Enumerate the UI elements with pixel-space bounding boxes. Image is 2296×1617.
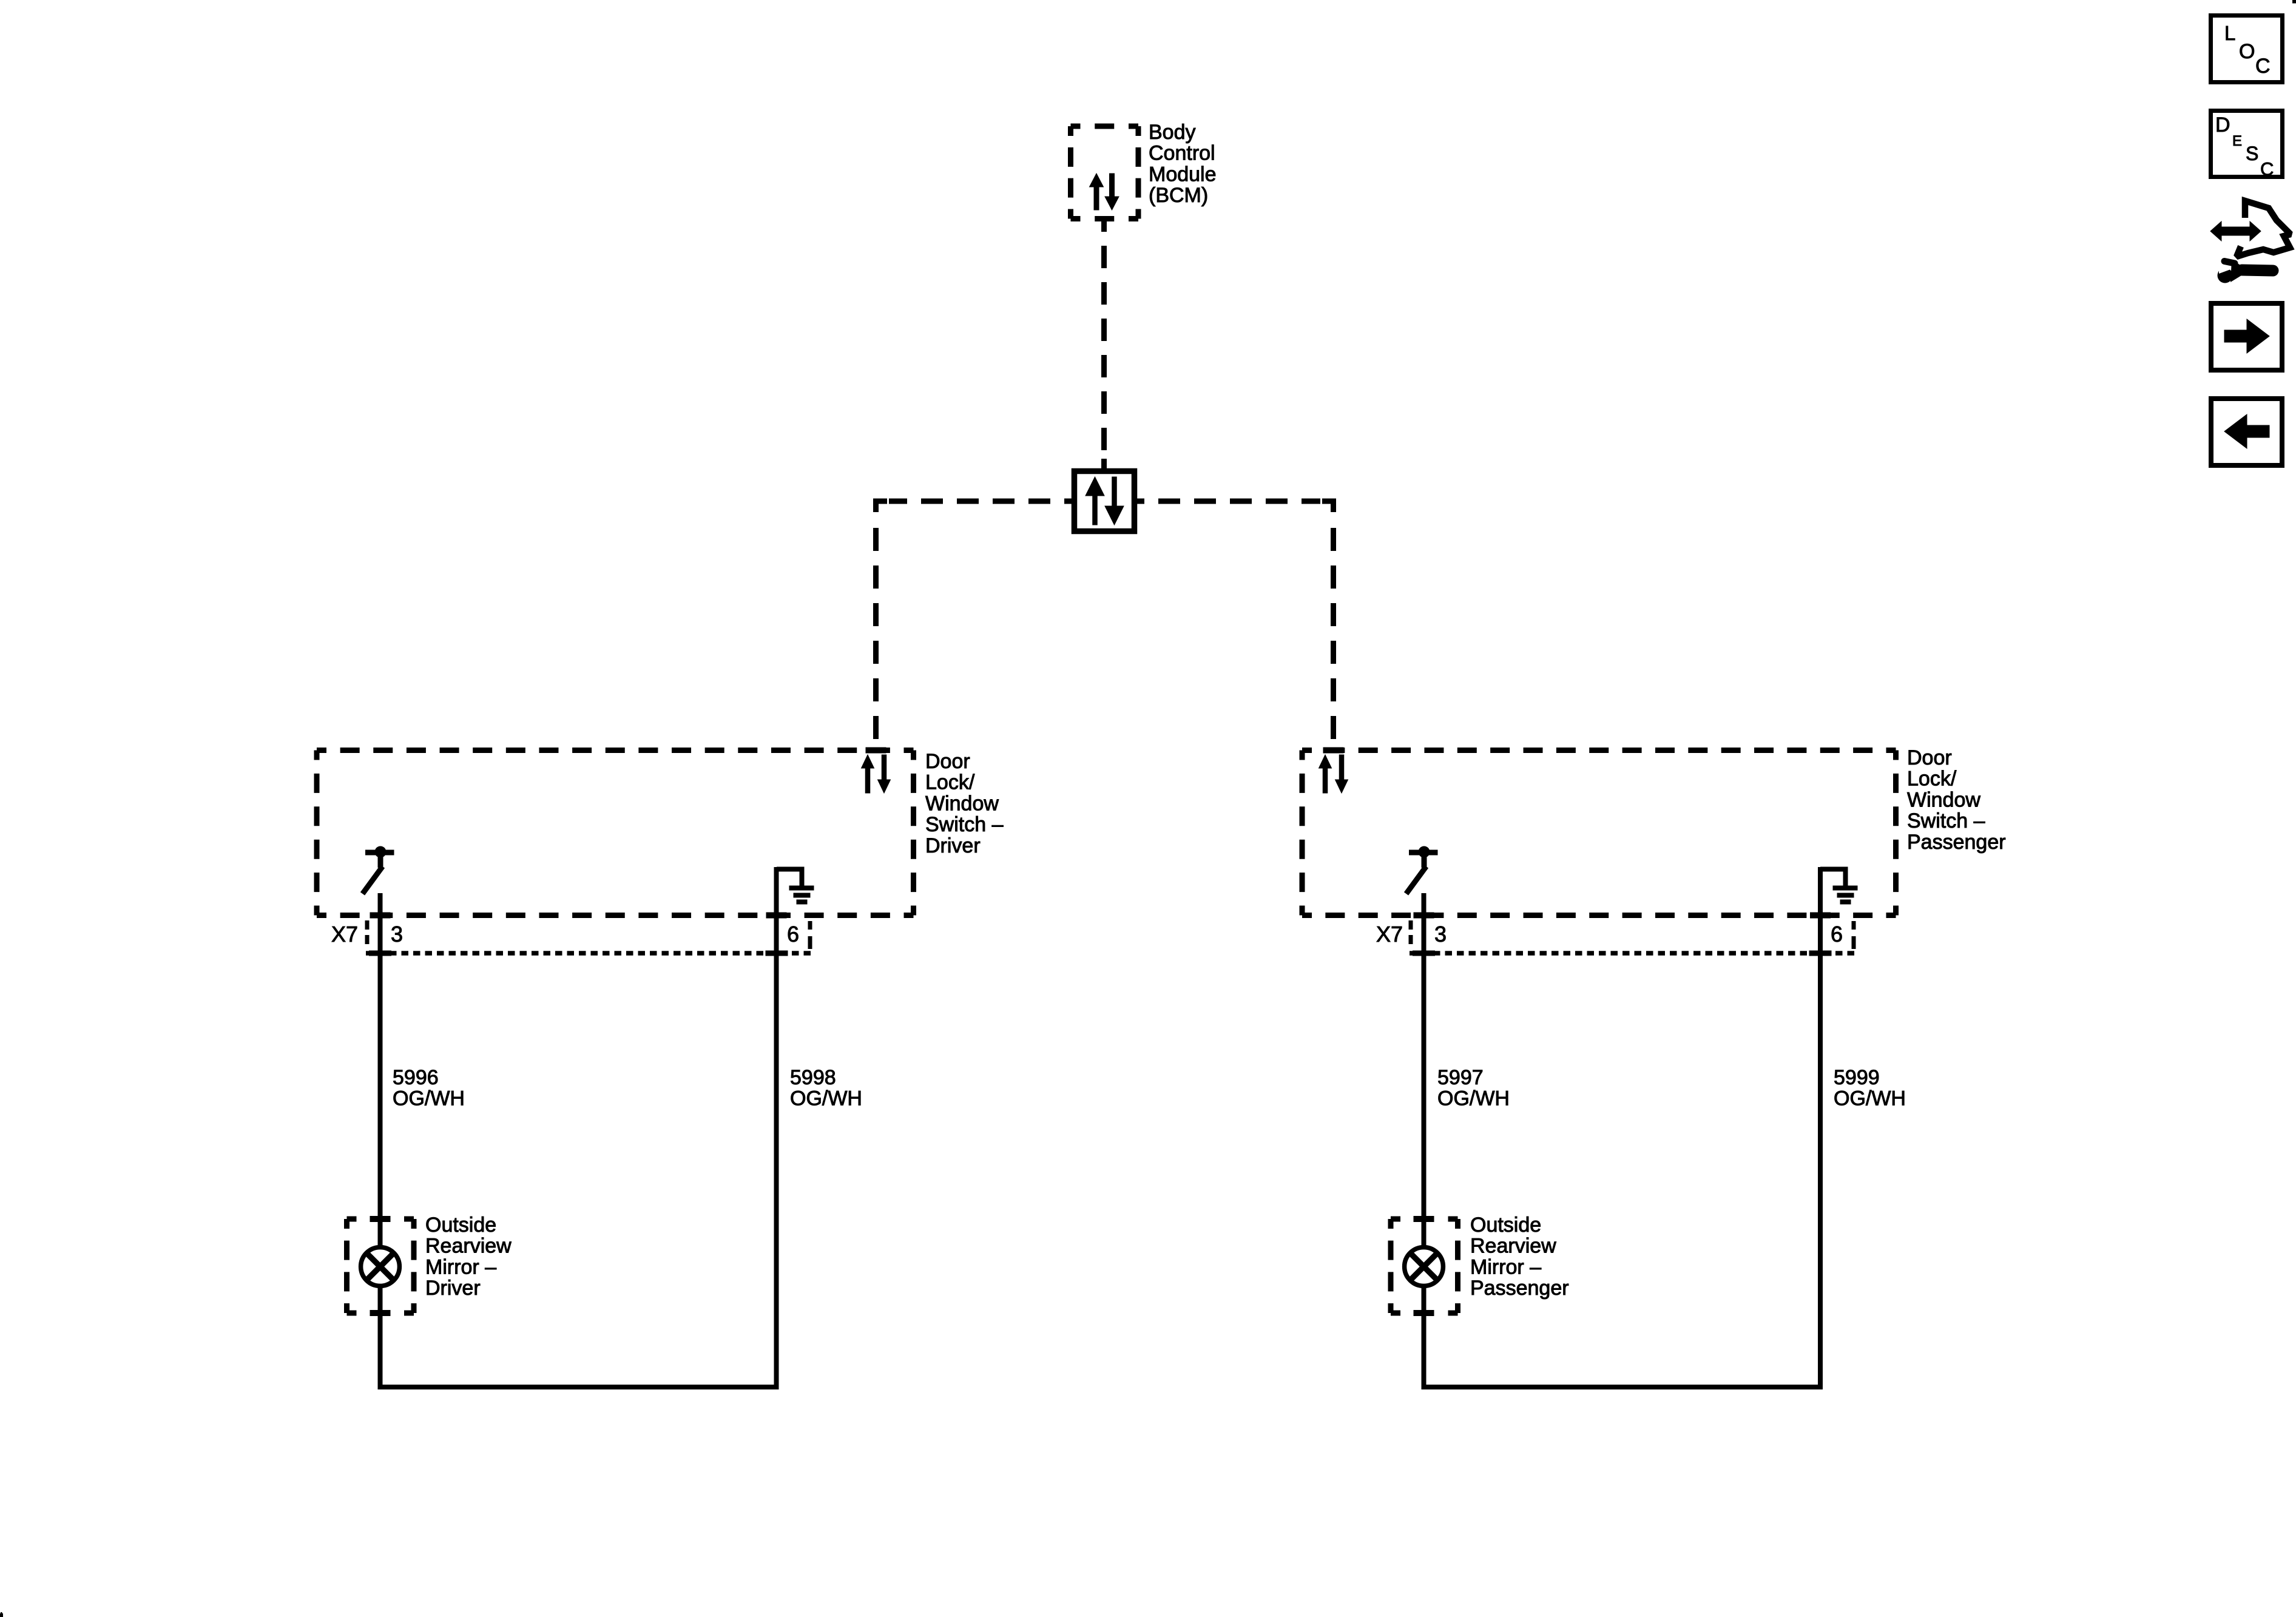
passenger switch box entry arrows	[1319, 755, 1348, 793]
svg-text:Lock/: Lock/	[925, 771, 975, 794]
svg-text:Passenger: Passenger	[1470, 1277, 1569, 1300]
svg-text:Switch –: Switch –	[925, 813, 1004, 836]
connector X7 (driver): bottom dotted line	[366, 951, 811, 956]
tick: driver box bottom pin 3	[370, 913, 390, 918]
driver switch box entry arrows	[862, 755, 891, 793]
connector X7 (driver): right edge	[808, 921, 812, 949]
wire: junction right stub	[1137, 499, 1144, 504]
wire: dashed horizontal to driver switch	[889, 499, 1064, 504]
lamp: passenger mirror turn signal	[1405, 1247, 1443, 1286]
icon: next page arrow box	[2211, 303, 2282, 370]
icon: LOC navigation box	[2211, 16, 2283, 83]
tick: passenger box bottom pin 6	[1811, 913, 1831, 918]
svg-text:X7: X7	[1376, 922, 1403, 947]
page artifact: bottom-left corner mark	[0, 1613, 3, 1617]
svg-text:5997: 5997	[1437, 1066, 1484, 1089]
BCM label text	[1149, 121, 1217, 207]
svg-text:Door: Door	[1907, 746, 1952, 769]
svg-text:6: 6	[787, 922, 799, 947]
tick: driver box top wire entry	[866, 748, 886, 753]
Outside Rearview Mirror - Driver dashed box	[347, 1219, 414, 1313]
svg-text:OG/WH: OG/WH	[393, 1087, 465, 1110]
tick: dotted row pin 3	[370, 951, 391, 956]
passenger switch box label	[1907, 746, 2006, 854]
switch S1 (driver mirror select)	[363, 846, 394, 894]
svg-text:O: O	[2239, 40, 2255, 63]
svg-text:Outside: Outside	[425, 1214, 496, 1237]
svg-text:5996: 5996	[393, 1066, 439, 1089]
svg-text:Control: Control	[1149, 142, 1215, 165]
svg-text:C: C	[2255, 55, 2271, 78]
connector X7 (passenger): right edge	[1852, 921, 1856, 949]
connector X7 (driver): separator	[365, 920, 370, 944]
svg-text:D: D	[2215, 113, 2230, 137]
svg-text:S: S	[2246, 143, 2258, 164]
ground (driver switch internal)	[777, 869, 814, 902]
wire label 5999 OG/WH	[1834, 1066, 1906, 1110]
page artifact: top-right corner mark	[2293, 0, 2296, 3]
wire: driver bottom horizontal	[378, 1385, 779, 1389]
svg-text:(BCM): (BCM)	[1149, 184, 1208, 207]
svg-text:Window: Window	[925, 792, 999, 815]
wire 5998 OG/WH: ground to bottom	[774, 867, 779, 1387]
driver mirror label	[425, 1214, 512, 1300]
wire: corner elbow right	[1322, 501, 1334, 512]
ground (passenger switch internal)	[1820, 869, 1858, 902]
wire label 5997 OG/WH	[1437, 1066, 1510, 1110]
svg-text:X7: X7	[331, 922, 358, 947]
wire: BCM bottom stub	[1101, 219, 1107, 232]
svg-text:OG/WH: OG/WH	[1834, 1087, 1906, 1110]
tick: driver box bottom pin 6	[766, 913, 786, 918]
svg-text:6: 6	[1831, 922, 1843, 947]
Door Lock/Window Switch - Driver dashed box	[317, 751, 914, 916]
svg-text:Body: Body	[1149, 121, 1196, 144]
wire label 5996 OG/WH	[393, 1066, 465, 1110]
passenger mirror label	[1470, 1214, 1569, 1300]
wire 5996 OG/WH: switch to mirror lamp	[378, 893, 383, 1246]
inline connector up/down arrows	[1086, 477, 1124, 525]
tick: passenger dotted row pin 6	[1809, 951, 1831, 956]
wire 5997 OG/WH: switch to mirror lamp	[1422, 893, 1427, 1246]
wire: dashed vertical BCM to inline connector	[1101, 232, 1107, 460]
svg-text:3: 3	[1434, 922, 1447, 947]
wire 5999 OG/WH: ground to bottom	[1818, 867, 1823, 1387]
svg-text:E: E	[2232, 133, 2242, 149]
svg-text:OG/WH: OG/WH	[1437, 1087, 1510, 1110]
wire: dashed horizontal to passenger switch	[1144, 499, 1320, 504]
tick: passenger lamp box bottom	[1414, 1311, 1434, 1316]
svg-text:Rearview: Rearview	[425, 1235, 512, 1258]
tick: dotted row pin 6	[766, 951, 788, 956]
wire: corner elbow left	[876, 501, 888, 512]
driver switch box label	[925, 750, 1004, 857]
BCM internal up/down arrows	[1090, 174, 1119, 210]
connector X7 (passenger): bottom dotted line	[1410, 951, 1855, 956]
svg-text:C: C	[2260, 158, 2274, 180]
svg-text:5998: 5998	[790, 1066, 836, 1089]
svg-text:5999: 5999	[1834, 1066, 1880, 1089]
tick: passenger box bottom pin 3	[1414, 913, 1434, 918]
wire: inline connector top stub	[1101, 459, 1107, 468]
lamp: driver mirror turn signal	[361, 1247, 400, 1286]
tick: passenger dotted row pin 3	[1413, 951, 1435, 956]
svg-text:Lock/: Lock/	[1907, 768, 1957, 791]
svg-text:OG/WH: OG/WH	[790, 1087, 862, 1110]
wire: driver lamp to bottom U	[378, 1288, 383, 1385]
inline connector box (solid)	[1075, 471, 1135, 532]
Door Lock/Window Switch - Passenger dashed box	[1302, 751, 1896, 916]
tick: passenger lamp box top	[1414, 1217, 1434, 1222]
svg-text:3: 3	[391, 922, 403, 947]
svg-text:Mirror –: Mirror –	[1470, 1255, 1541, 1278]
svg-text:Rearview: Rearview	[1470, 1235, 1556, 1258]
svg-text:Switch –: Switch –	[1907, 809, 1985, 832]
wire: passenger bottom horizontal	[1422, 1385, 1823, 1389]
Outside Rearview Mirror - Passenger dashed box	[1391, 1219, 1458, 1313]
wire: dashed vertical down to driver switch box	[873, 513, 879, 748]
svg-text:Mirror –: Mirror –	[425, 1255, 496, 1278]
wire: passenger lamp to bottom U	[1422, 1288, 1427, 1385]
svg-text:Outside: Outside	[1470, 1214, 1541, 1237]
switch S2 (passenger mirror select)	[1406, 846, 1438, 894]
svg-text:Passenger: Passenger	[1907, 831, 2006, 854]
wire: junction left stub	[1064, 499, 1072, 504]
Body Control Module (BCM) dashed box	[1071, 126, 1139, 219]
tick: driver lamp box top	[370, 1217, 390, 1222]
svg-text:Module: Module	[1149, 163, 1217, 186]
connector X7 (passenger): separator	[1409, 920, 1413, 944]
icon: previous page arrow box	[2211, 399, 2282, 465]
tick: passenger box top wire entry	[1323, 748, 1343, 753]
svg-text:Driver: Driver	[425, 1277, 481, 1300]
icon: DESC navigation box	[2211, 111, 2283, 180]
wire: dashed vertical down to passenger switch box	[1331, 513, 1336, 748]
svg-text:Door: Door	[925, 750, 970, 773]
svg-text:Window: Window	[1907, 788, 1980, 811]
tick: driver lamp box bottom	[370, 1311, 390, 1316]
svg-text:Driver: Driver	[925, 834, 981, 857]
wire label 5998 OG/WH	[790, 1066, 862, 1110]
icon: connector repair (double arrow, part outline, wrench)	[2210, 201, 2291, 283]
svg-text:L: L	[2224, 22, 2235, 44]
